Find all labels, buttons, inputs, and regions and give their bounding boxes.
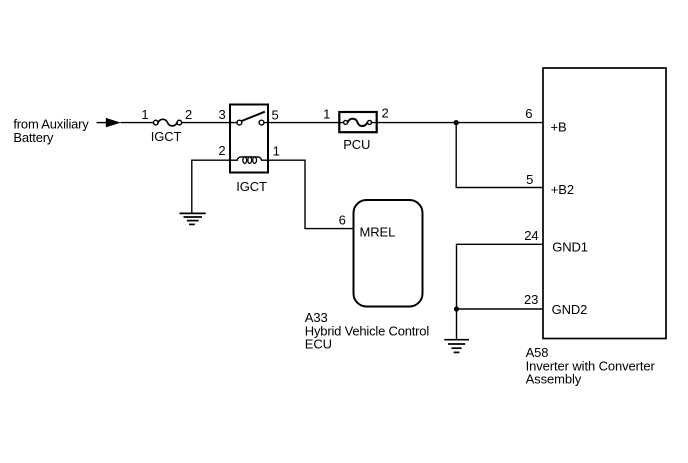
- wire inverter pin 24 (GND1) to ground riser: [457, 244, 544, 339]
- svg-text:6: 6: [339, 212, 346, 227]
- svg-text:1: 1: [141, 107, 148, 122]
- fuse PCU element: [344, 119, 372, 126]
- svg-text:2: 2: [218, 143, 225, 158]
- wire inverter pin 23 (GND2) to ground riser: [457, 308, 544, 310]
- arrow from auxiliary battery: [106, 118, 121, 128]
- fuse PCU box: [339, 112, 376, 132]
- svg-text:Battery: Battery: [13, 130, 53, 145]
- svg-text:1: 1: [323, 107, 330, 122]
- svg-text:2: 2: [185, 107, 192, 122]
- wire relay pin 5 to fuse PCU pin 1: [268, 122, 344, 124]
- svg-text:PCU: PCU: [343, 137, 370, 152]
- fuse IGCT (fusible link): [154, 119, 182, 126]
- svg-text:MREL: MREL: [360, 225, 396, 240]
- wire fuse PCU pin 2 to inverter pin 6 (+B): [371, 122, 543, 124]
- svg-text:6: 6: [525, 106, 532, 121]
- wire relay pin 2 to ground: [192, 160, 230, 213]
- ground (relay coil): [180, 213, 206, 224]
- node "from Auxiliary Battery" label: [13, 117, 89, 146]
- node junction on +B wire: [454, 120, 459, 125]
- relay IGCT box: [230, 105, 268, 173]
- ECU designator label A33 Hybrid Vehicle Control ECU: [305, 310, 430, 352]
- relay switch contact: [237, 112, 268, 125]
- svg-text:5: 5: [272, 107, 279, 122]
- svg-text:2: 2: [382, 106, 389, 121]
- svg-text:3: 3: [219, 107, 226, 122]
- inverter with converter assembly box (A58): [543, 68, 666, 339]
- svg-text:Assembly: Assembly: [526, 372, 582, 387]
- wire junction to inverter pin 5 (+B2): [456, 123, 543, 188]
- svg-text:1: 1: [273, 143, 280, 158]
- svg-text:GND2: GND2: [552, 302, 588, 317]
- wire relay pin 1 to ECU MREL pin 6: [268, 160, 353, 228]
- inverter designator label A58 Inverter with Converter Assembly: [526, 345, 656, 387]
- wire arrow to fuse IGCT pin 1: [121, 122, 154, 124]
- svg-text:IGCT: IGCT: [151, 129, 182, 144]
- ECU MREL box (A33): [354, 200, 423, 307]
- svg-text:5: 5: [526, 172, 533, 187]
- wire fuse IGCT pin 2 to relay pin 3: [181, 122, 237, 124]
- ground (inverter): [444, 340, 469, 353]
- node junction GND2 riser: [454, 306, 459, 311]
- svg-text:GND1: GND1: [552, 239, 588, 254]
- svg-text:24: 24: [524, 228, 538, 243]
- svg-text:+B2: +B2: [551, 182, 574, 197]
- svg-text:+B: +B: [551, 119, 567, 134]
- relay coil: [230, 157, 268, 164]
- svg-text:ECU: ECU: [305, 337, 332, 352]
- wire from source arrow lead: [97, 122, 107, 124]
- svg-text:23: 23: [524, 292, 538, 307]
- svg-text:IGCT: IGCT: [236, 179, 267, 194]
